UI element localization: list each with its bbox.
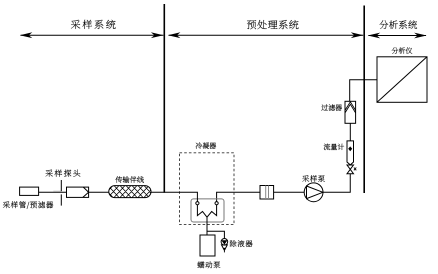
wire condensate drain down — [206, 217, 208, 235]
section divider line 1 (sampling/pretreatment boundary) — [163, 4, 165, 193]
wire main sample line into condenser — [151, 192, 197, 201]
wire condenser outlet to fine filter — [217, 192, 260, 201]
drainer symbol — [221, 239, 228, 246]
label 分析系统 header — [380, 20, 418, 29]
wire analyzer inlet (filter top to analyzer) — [350, 80, 377, 102]
label 冷凝器 label — [196, 142, 216, 149]
analysis-system span arrow — [368, 35, 426, 37]
condenser outlet port — [215, 202, 218, 205]
label 采样探头 label — [46, 170, 81, 177]
label 采样泵 label — [302, 175, 325, 182]
section divider line 2 (pretreatment/analysis boundary) — [363, 6, 365, 194]
pretreatment-system span arrow — [169, 34, 364, 36]
label 传输伴线 label — [116, 176, 144, 183]
wire filter to flow meter — [349, 123, 351, 141]
wire membrane filter to sample pump — [274, 191, 305, 193]
stack wall lower segment — [60, 194, 62, 205]
label 预处理系统 header — [247, 20, 299, 29]
condenser heat-exchanger body — [191, 199, 224, 222]
needle valve under flow meter — [347, 165, 354, 174]
condenser dashed enclosure — [180, 153, 235, 225]
label 除液器 label — [230, 240, 253, 247]
stack wall upper segment — [60, 180, 62, 191]
filter (gas filter) — [345, 101, 356, 123]
label 流量计 label — [324, 144, 344, 151]
fine filter (membrane) box — [260, 186, 274, 200]
sampling probe body — [67, 187, 89, 197]
label 分析仪 label — [392, 47, 413, 53]
analyzer U1 box — [377, 57, 427, 103]
label 采样管/预滤器 label — [3, 201, 53, 209]
peristaltic pump box — [200, 235, 215, 256]
wire pre-filter to probe through stack wall — [39, 191, 67, 193]
sample pump P2 (circle with triangle) — [304, 183, 323, 202]
label 蠕动泵 label — [198, 261, 221, 268]
sampling tube / pre-filter box — [20, 187, 39, 195]
label 过滤器 label — [321, 104, 342, 110]
condenser inlet port — [196, 202, 199, 205]
wire branch to drainer — [207, 231, 224, 238]
wire probe to heated line — [89, 191, 109, 193]
condenser coil zigzag — [197, 205, 216, 217]
label 采样系统 header — [71, 20, 116, 29]
flow meter FI — [347, 141, 354, 165]
wire valve down and to sample pump — [323, 174, 350, 193]
sampling-system span arrow — [21, 34, 164, 36]
